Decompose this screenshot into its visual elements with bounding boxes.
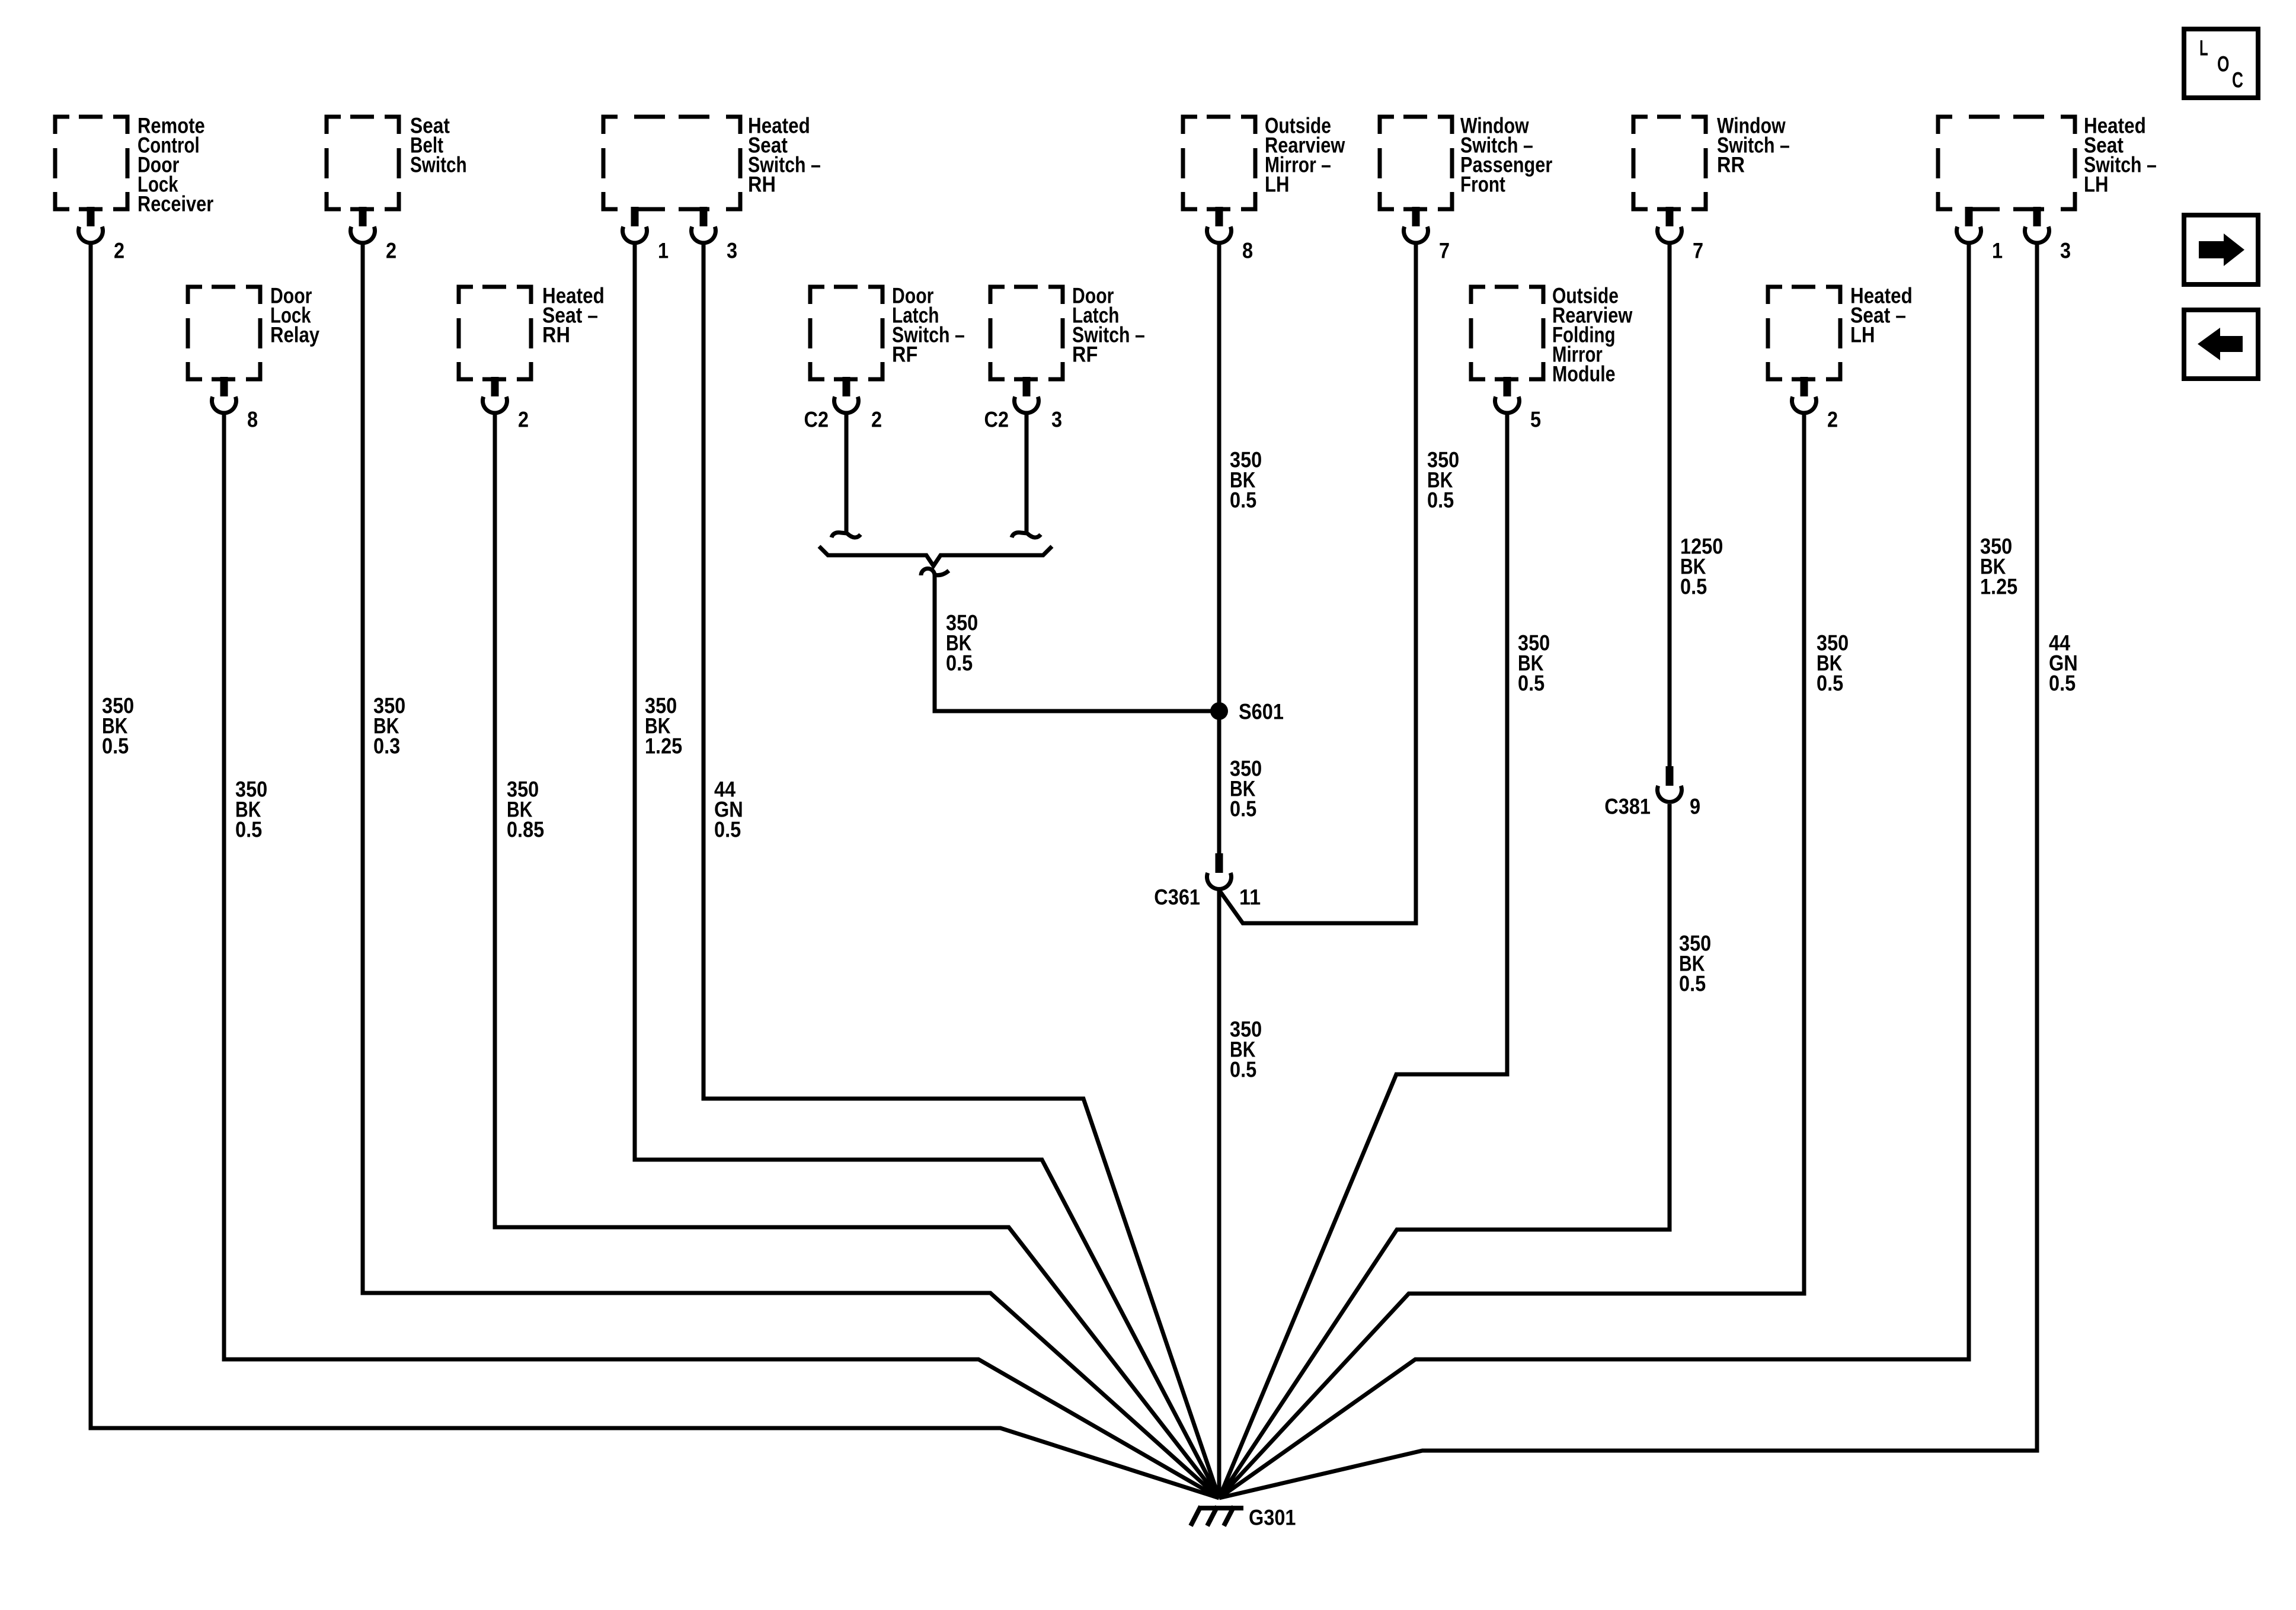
svg-text:C: C [2232,68,2243,92]
ground G301 [1191,1506,1296,1530]
svg-text:9: 9 [1690,795,1700,819]
component box: Heated Seat Switch - RH [603,114,821,210]
wire label 350 BK 0.5 [1518,631,1550,696]
svg-text:1: 1 [1992,239,2003,263]
component box: Heated Seat - RH [459,284,605,380]
svg-text:Relay: Relay [270,323,319,347]
wire 1250 BK 0.5 from Window Switch - RR pin 7 to C381 [1668,242,1672,766]
svg-text:0.85: 0.85 [507,818,544,842]
component box: Door Lock Relay [188,284,319,380]
wire 350 BK 1.25 from Heated Seat Switch - LH pin 1 to G301 [1219,242,1969,1498]
svg-text:0.5: 0.5 [1230,488,1256,513]
svg-text:0.5: 0.5 [235,818,262,842]
connector pin 2 of Seat Belt Switch [350,207,396,263]
svg-text:2: 2 [386,239,396,263]
arrow box: continue left [2184,310,2258,379]
wire 350 BK 0.5 from Outside Rearview Mirror - LH pin 8 through S601 to C361 [1217,242,1221,853]
component box: Window Switch - Passenger Front [1380,114,1552,210]
svg-text:0.5: 0.5 [1518,671,1544,696]
svg-text:0.5: 0.5 [1680,575,1707,599]
wire label 350 BK 0.5 (below C381) [1679,932,1711,996]
connector pin 7 of Window Switch - RR [1657,207,1703,263]
connector pin 1 of Heated Seat Switch - RH [623,207,669,263]
wire 44 GN 0.5 from Heated Seat Switch - LH pin 3 to G301 [1219,242,2037,1498]
wire label 350 BK 0.3 [373,694,405,758]
svg-text:LH: LH [2084,172,2109,197]
svg-text:0.5: 0.5 [714,818,741,842]
connector pin 8 of Outside Rearview Mirror - LH [1207,207,1253,263]
splice S601 [1210,700,1284,724]
wire label 350 BK 0.5 (below S601) [1230,757,1262,821]
wire 350 BK 0.5 from Window Switch - Passenger Front pin 7 to C361 [1219,242,1416,923]
wire 350 BK 0.5 from Remote Control Door Lock Receiver pin 2 to G301 [91,242,1219,1498]
svg-text:LH: LH [1850,323,1875,347]
connector C381 pin 9 (inline) [1604,766,1700,819]
wire 350 BK 0.5 from merge curl to splice S601 [935,574,1219,711]
component box: Door Latch Switch - RF (right) [990,284,1145,380]
connector C2 pin 3 of Door Latch Switch - RF (right) [984,377,1063,432]
component box: Window Switch - RR [1633,114,1790,210]
svg-text:7: 7 [1693,239,1703,263]
wire 350 BK 0.5 from C381 pin 9 to G301 [1219,804,1670,1498]
svg-text:1: 1 [658,239,669,263]
connector C361 pin 11 (inline) [1154,853,1261,910]
svg-text:Module: Module [1552,362,1616,386]
svg-text:3: 3 [2060,239,2071,263]
connector C2 pin 2 of Door Latch Switch - RF (left) [804,377,882,432]
svg-text:1.25: 1.25 [645,734,682,758]
wire label 350 BK 0.5 [946,611,978,676]
svg-text:0.5: 0.5 [1817,671,1843,696]
svg-text:7: 7 [1439,239,1450,263]
svg-text:8: 8 [1242,239,1253,263]
wire 350 BK 0.5 from Outside Rearview Folding Mirror Module pin 5 to G301 [1219,412,1507,1498]
component box: Remote Control Door Lock Receiver [55,114,213,216]
connector pin 3 of Heated Seat Switch - LH [2025,207,2071,263]
wire end hook (left door latch) [832,533,861,537]
svg-text:Receiver: Receiver [137,192,213,216]
wire label 350 BK 0.5 [1230,448,1262,513]
connector pin 1 of Heated Seat Switch - LH [1957,207,2003,263]
svg-text:1.25: 1.25 [1980,575,2017,599]
svg-text:0.5: 0.5 [946,651,973,676]
wire 350 BK 0.5 from Door Lock Relay pin 8 to G301 [224,412,1219,1498]
connector pin 2 of Heated Seat - RH [482,377,529,432]
connector pin 7 of Window Switch - Passenger Front [1404,207,1450,263]
svg-text:LH: LH [1265,172,1290,197]
svg-text:0.5: 0.5 [1230,1058,1256,1082]
svg-text:C381: C381 [1604,795,1651,819]
wire 350 BK 0.85 from Heated Seat - RH pin 2 to G301 [495,412,1219,1498]
svg-text:S601: S601 [1239,700,1284,724]
connector pin 5 of Outside Rearview Folding Mirror Module [1495,377,1542,432]
wire label 1250 BK 0.5 [1680,534,1723,599]
component box: Outside Rearview Mirror - LH [1183,114,1345,210]
svg-text:0.5: 0.5 [1427,488,1454,513]
component box: Outside Rearview Folding Mirror Module [1471,284,1633,386]
svg-text:C2: C2 [984,408,1009,432]
svg-text:3: 3 [1051,408,1062,432]
connector pin 2 of Heated Seat - LH [1792,377,1838,432]
wire from Door Latch Switch - RF (left) C2 pin 2 to splice brace [845,412,849,532]
connector pin 3 of Heated Seat Switch - RH [691,207,737,263]
wire label 350 BK 0.5 [1817,631,1849,696]
wire label 44 GN 0.5 [714,777,743,842]
wire 44 GN 0.5 from Heated Seat Switch - RH pin 3 to G301 [703,242,1219,1498]
svg-text:11: 11 [1239,885,1261,910]
svg-text:RF: RF [892,343,917,367]
wire label 350 BK 0.5 [235,777,267,842]
svg-text:2: 2 [518,408,529,432]
svg-text:0.5: 0.5 [1230,797,1256,821]
svg-text:0.5: 0.5 [1679,972,1706,996]
wire 350 BK 0.3 from Seat Belt Switch pin 2 to G301 [363,242,1219,1498]
svg-text:RF: RF [1072,343,1098,367]
component box: Heated Seat - LH [1768,284,1913,380]
component box: Door Latch Switch - RF (left) [810,284,965,380]
svg-text:2: 2 [114,239,124,263]
connector pin 2 of Remote Control Door Lock Receiver [79,207,125,263]
svg-text:0.3: 0.3 [373,734,400,758]
svg-text:C2: C2 [804,408,829,432]
svg-text:8: 8 [247,408,258,432]
wire 350 BK 0.5 from C361 pin 11 to G301 [1217,890,1221,1498]
arrow box: continue right [2184,215,2258,284]
merge curl below brace [921,569,949,576]
svg-text:O: O [2217,52,2230,76]
svg-text:5: 5 [1530,408,1541,432]
connector pin 8 of Door Lock Relay [212,377,258,432]
wire label 350 BK 1.25 [645,694,682,758]
svg-text:Switch: Switch [410,153,467,177]
svg-text:G301: G301 [1249,1506,1296,1530]
LOC reference box [2184,29,2258,98]
svg-text:L: L [2199,36,2208,60]
svg-text:RH: RH [542,323,570,347]
wire label 44 GN 0.5 [2049,631,2078,696]
svg-text:RH: RH [748,172,776,197]
svg-text:0.5: 0.5 [102,734,129,758]
component box: Seat Belt Switch [327,114,467,210]
component box: Heated Seat Switch - LH [1938,114,2157,210]
svg-text:Front: Front [1460,172,1505,197]
svg-text:3: 3 [727,239,737,263]
wire label 350 BK 0.5 [102,694,134,758]
svg-text:0.5: 0.5 [2049,671,2076,696]
merge brace joining the two door latch wires [819,546,1052,566]
wire label 350 BK 0.5 (below C361) [1230,1017,1262,1082]
wire from Door Latch Switch - RF (right) C2 pin 3 to splice brace [1025,412,1029,532]
svg-text:2: 2 [1827,408,1838,432]
svg-text:RR: RR [1717,153,1745,177]
svg-text:C361: C361 [1154,885,1200,910]
wire end hook (right door latch) [1012,533,1041,537]
wire 350 BK 1.25 from Heated Seat Switch - RH pin 1 to G301 [635,242,1219,1498]
wire label 350 BK 0.85 [507,777,544,842]
wire label 350 BK 1.25 [1980,534,2017,599]
svg-text:2: 2 [871,408,882,432]
wire 350 BK 0.5 from Heated Seat - LH pin 2 to G301 [1219,412,1804,1498]
wire label 350 BK 0.5 [1427,448,1459,513]
